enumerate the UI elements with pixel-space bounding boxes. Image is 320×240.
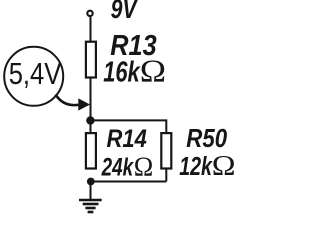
svg-text:9V: 9V <box>111 0 139 24</box>
terminal 9V (open circle) <box>87 11 92 16</box>
svg-text:R14: R14 <box>107 125 147 153</box>
resistor R13 <box>86 42 96 78</box>
annotation circle 5,4V <box>4 47 63 106</box>
wire from R13 to node <box>90 78 92 134</box>
arrow from circle to wire <box>56 95 79 106</box>
svg-text:Ω: Ω <box>134 150 154 181</box>
svg-text:12k: 12k <box>179 153 213 181</box>
wire bottom rail (horizontal) <box>91 181 167 183</box>
wire R50 to bottom rail <box>165 168 167 182</box>
wire node to R50 (top horizontal + right vertical) <box>91 120 167 133</box>
svg-text:24k: 24k <box>101 153 134 181</box>
svg-text:16k: 16k <box>103 56 141 88</box>
resistor R14 <box>86 133 96 168</box>
svg-text:R50: R50 <box>186 125 227 153</box>
svg-text:Ω: Ω <box>212 151 236 182</box>
ground <box>79 200 102 212</box>
wire from terminal to R13 <box>90 17 92 42</box>
node junction (top) <box>86 116 94 124</box>
wire node to ground <box>90 182 92 200</box>
resistor R50 <box>161 133 171 168</box>
svg-text:Ω: Ω <box>140 53 166 88</box>
svg-text:5,4V: 5,4V <box>9 56 62 91</box>
node junction (bottom) <box>87 178 95 186</box>
